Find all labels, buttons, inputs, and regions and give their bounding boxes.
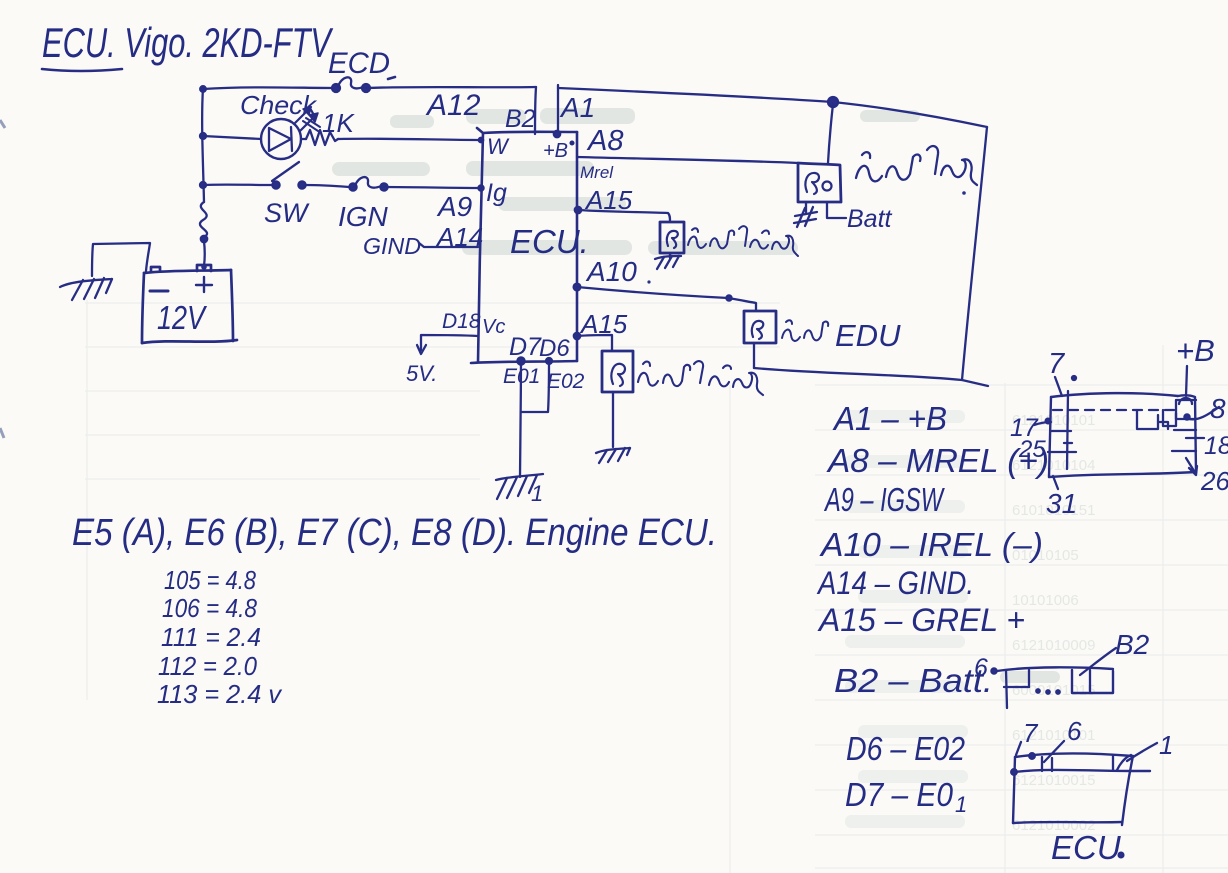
svg-text:A9: A9 xyxy=(436,191,472,222)
node bus LED row xyxy=(200,133,206,139)
relay glow K4 xyxy=(602,351,633,392)
svg-text:105 = 4.8: 105 = 4.8 xyxy=(164,565,256,595)
relay glow K1 xyxy=(660,222,684,253)
node junction to main relay xyxy=(828,97,838,107)
svg-text:1K: 1K xyxy=(322,108,355,138)
fuse battery (S link) xyxy=(200,202,207,242)
ground main relay (slashed) xyxy=(794,207,817,227)
svg-text:A9 – IGSW: A9 – IGSW xyxy=(824,481,945,518)
relay main K3 xyxy=(798,163,841,202)
wire main relay right pin to Batt xyxy=(827,202,846,218)
J1 inner key line xyxy=(1067,391,1068,469)
ground E01 xyxy=(496,474,543,506)
LED check lamp xyxy=(261,107,320,159)
svg-text:E02: E02 xyxy=(547,370,585,393)
svg-text:IGN: IGN xyxy=(338,201,389,232)
svg-text:6: 6 xyxy=(974,654,988,682)
svg-text:A12: A12 xyxy=(425,89,481,122)
wire top bus segment right of fuse xyxy=(366,87,536,88)
J2 dashed dots xyxy=(1036,689,1039,692)
ground K4 xyxy=(596,448,630,463)
svg-text:ECU.: ECU. xyxy=(510,223,589,260)
svg-text:6121010015: 6121010015 xyxy=(1012,772,1095,789)
wire B2 pin drop xyxy=(535,87,536,134)
svg-text:18: 18 xyxy=(1204,432,1228,460)
ground relay K1 xyxy=(655,253,681,269)
svg-text:D7: D7 xyxy=(509,333,542,361)
pin +B label xyxy=(543,131,573,162)
ground battery xyxy=(60,278,112,300)
wire K4 to ground xyxy=(612,392,614,447)
svg-text:+B: +B xyxy=(543,140,568,162)
wire SW to IGN fuse xyxy=(305,185,349,187)
label relay EDU (Thai + EDU) xyxy=(782,318,901,353)
relay EDU K2 xyxy=(744,311,776,343)
pin D18 Vc labels xyxy=(442,310,505,338)
wire A10 IREL to relay EDU xyxy=(577,287,756,311)
svg-text:EDU: EDU xyxy=(835,318,901,353)
connector J1 (ECU A connector, top right) xyxy=(1010,333,1228,519)
svg-text:Batt: Batt xyxy=(847,205,893,233)
pin A15 node xyxy=(575,207,581,213)
wire Vc to 5V arrow xyxy=(421,335,478,350)
svg-text:6000101015: 6000101015 xyxy=(1012,682,1095,699)
svg-text:1: 1 xyxy=(1159,730,1173,760)
wire main relay coil riser xyxy=(828,104,833,163)
node bus SW row xyxy=(200,182,206,188)
svg-text:D6: D6 xyxy=(539,335,570,362)
svg-text:111 = 2.4: 111 = 2.4 xyxy=(161,622,261,652)
connector J2 (B2 row) xyxy=(974,629,1150,708)
svg-text:D18: D18 xyxy=(442,310,481,333)
node A10 junction xyxy=(726,295,731,300)
J2 body top line xyxy=(997,667,1113,671)
label relay main (Thai script) xyxy=(856,146,977,195)
battery BT1 12V xyxy=(142,264,237,343)
wire E02 loop xyxy=(521,361,549,412)
wire A1 riser xyxy=(557,85,559,133)
pin A10 node xyxy=(574,284,581,291)
svg-text:6121010009: 6121010009 xyxy=(1012,637,1095,654)
svg-text:B2: B2 xyxy=(1115,629,1150,660)
svg-text:B2 – Batt.: B2 – Batt. xyxy=(834,662,993,699)
wire battery negative lead xyxy=(92,243,150,276)
J3 body xyxy=(1013,754,1150,826)
svg-text:6: 6 xyxy=(1067,716,1082,746)
J1 body xyxy=(1049,393,1196,477)
pin D6 node xyxy=(546,358,552,364)
svg-text:A14 – GIND.: A14 – GIND. xyxy=(816,565,974,601)
J1 centre pin slots xyxy=(1137,410,1158,429)
stray dot near A10 wire xyxy=(647,280,650,283)
wire battery positive lead xyxy=(203,241,206,266)
arrow 5V xyxy=(417,345,426,354)
wire A14 GIND stub xyxy=(419,243,478,247)
J2 leader to B2 xyxy=(1080,648,1116,675)
svg-text:A10 – IREL (–): A10 – IREL (–) xyxy=(819,526,1043,563)
svg-text:31: 31 xyxy=(1046,488,1077,519)
pin A15 lower node xyxy=(574,333,580,339)
svg-text:ECU: ECU xyxy=(1051,829,1121,866)
resistor R 1K xyxy=(306,130,338,145)
wire E01 down xyxy=(520,361,521,477)
svg-text:Vc: Vc xyxy=(482,316,505,338)
svg-text:5V.: 5V. xyxy=(406,361,437,386)
pin D7 node xyxy=(517,357,524,364)
wire LED row left xyxy=(203,136,261,139)
svg-text:E5 (A), E6 (B), E7 (C), E8 (D): E5 (A), E6 (B), E7 (C), E8 (D). Engine E… xyxy=(72,512,717,554)
svg-text:Ig: Ig xyxy=(486,179,507,207)
switch SW xyxy=(272,162,306,189)
svg-text:B2: B2 xyxy=(505,105,536,133)
svg-text:+B: +B xyxy=(1176,333,1215,368)
J3 pin ticks xyxy=(1029,753,1035,759)
svg-text:ECD: ECD xyxy=(328,47,390,80)
svg-text:ECU. Vigo. 2KD-FTV: ECU. Vigo. 2KD-FTV xyxy=(42,19,334,66)
title ECU. Vigo. 2KD-FTV xyxy=(42,19,334,71)
J2 right cavity xyxy=(1072,670,1113,693)
svg-text:106 = 4.8: 106 = 4.8 xyxy=(162,593,257,623)
svg-text:A8: A8 xyxy=(586,125,623,157)
svg-text:W: W xyxy=(487,134,510,159)
svg-text:1: 1 xyxy=(955,792,967,817)
svg-text:SW: SW xyxy=(264,198,310,228)
svg-text:A10: A10 xyxy=(585,256,637,287)
svg-text:A15 – GREL +: A15 – GREL + xyxy=(817,602,1025,638)
wire main relay left pin xyxy=(805,202,807,212)
svg-text:A1 – +B: A1 – +B xyxy=(832,400,947,437)
svg-text:Mrel: Mrel xyxy=(580,163,614,182)
fuse IGN xyxy=(349,177,387,191)
svg-text:Check: Check xyxy=(240,90,318,120)
label relay K4 (Thai script) xyxy=(638,361,763,395)
ECU U1 body xyxy=(471,128,577,363)
scan edge marks xyxy=(0,120,5,438)
svg-text:D7 – E0: D7 – E0 xyxy=(845,776,954,813)
svg-text:1: 1 xyxy=(531,481,543,506)
svg-text:7: 7 xyxy=(1023,718,1039,748)
svg-text:12V: 12V xyxy=(157,299,207,336)
svg-text:GIND: GIND xyxy=(363,233,421,259)
svg-text:26: 26 xyxy=(1200,466,1228,496)
wire SW row left xyxy=(203,183,272,186)
wire EDU loop bottom and right side xyxy=(754,127,988,386)
connector J3 (ECU bottom) xyxy=(1011,716,1173,866)
label relay K1 (Thai script) xyxy=(688,226,798,256)
wire IGN to ECU pin Ig xyxy=(384,187,481,188)
wire A15 GREL to glow relay K1 xyxy=(578,210,670,221)
wire left bus vertical xyxy=(202,88,204,202)
svg-text:113 = 2.4 v: 113 = 2.4 v xyxy=(157,679,283,709)
svg-text:25: 25 xyxy=(1018,436,1046,463)
svg-text:A8 – MREL (+): A8 – MREL (+) xyxy=(826,442,1049,479)
wire top bus right run xyxy=(558,88,987,127)
svg-text:112 = 2.0: 112 = 2.0 xyxy=(158,651,257,681)
wire resistor to ECU pin W xyxy=(338,139,481,140)
fuse ECD xyxy=(332,77,395,92)
J1 dashed row line xyxy=(1053,409,1175,411)
wire A8 MREL to main relay xyxy=(577,157,798,163)
wire A15 lower to glow relay K4 xyxy=(577,335,612,351)
svg-text:7: 7 xyxy=(1048,348,1066,380)
wire top bus segment left xyxy=(203,87,334,89)
J2 left cavity xyxy=(1006,670,1007,708)
svg-text:D6 – E02: D6 – E02 xyxy=(846,730,965,767)
svg-text:A1: A1 xyxy=(559,92,595,123)
wire LED to resistor xyxy=(301,138,306,140)
